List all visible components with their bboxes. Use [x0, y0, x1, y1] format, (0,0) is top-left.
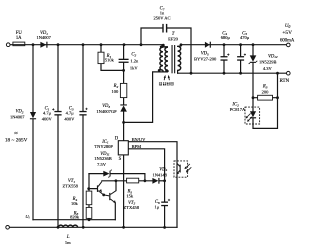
svg-text:C2: C2 [131, 53, 136, 58]
terminal input N [6, 226, 10, 230]
svg-text:200: 200 [262, 89, 270, 94]
resistor R3 200 [258, 85, 273, 101]
capacitor C4 680u [221, 31, 231, 60]
node clamp and drain junctions [122, 69, 125, 124]
AC input label 18~265V [5, 131, 28, 144]
svg-text:BPM: BPM [132, 144, 142, 149]
diode VD3 1N4007GP [96, 104, 127, 114]
fuse FU 1A [13, 31, 25, 46]
capacitor C5 470u [237, 31, 250, 60]
diode VD2 1N4007 [10, 110, 36, 120]
svg-text:4.7μ: 4.7μ [66, 111, 75, 116]
resistor R4 10k [71, 191, 92, 206]
node R3 LED junctions [252, 96, 279, 99]
wire VD4 to BPM node [160, 180, 165, 182]
terminal input L [6, 43, 10, 47]
svg-text:EF20: EF20 [168, 37, 179, 42]
svg-text:18 ~ 265V: 18 ~ 265V [5, 138, 28, 144]
zener VD12 1N5229B 4.3V [249, 54, 278, 71]
wire C5 branch [240, 45, 242, 73]
resistor R1 510k [98, 52, 115, 63]
wire VD3 to drain node [123, 112, 125, 141]
node secondary rail junctions [180, 43, 255, 46]
svg-text:250V AC: 250V AC [153, 16, 170, 21]
diode VD4 1N4148 [152, 167, 167, 183]
wire VD2 to sense rail [32, 119, 34, 219]
wire top rail primary [10, 44, 164, 46]
terminal RTN [287, 71, 291, 75]
terminal output +5V [287, 43, 291, 47]
transformer core [168, 32, 179, 73]
wire R1 branch [101, 45, 124, 71]
svg-text:1kV: 1kV [130, 66, 139, 71]
wire VD11 net [89, 174, 145, 181]
capacitor C3 4.7u 400V [64, 107, 87, 122]
node bottom rail junctions [57, 226, 166, 229]
capacitor C6 1u [154, 199, 170, 210]
shield winding label with arrows [159, 75, 174, 86]
capacitor C2 1.2n 1kV [119, 53, 139, 71]
svg-text:680μ: 680μ [221, 35, 231, 40]
svg-text:≈: ≈ [14, 131, 18, 137]
svg-text:+5V: +5V [282, 30, 292, 36]
svg-text:1N4007: 1N4007 [10, 114, 25, 119]
svg-text:820k: 820k [70, 214, 80, 219]
svg-text:1N5236B: 1N5236B [94, 156, 112, 161]
output label U0 +5V 600mA [280, 24, 295, 43]
transistor VT1 ZTX558 [62, 179, 103, 195]
capacitor C7 1n 250VAC [153, 7, 170, 33]
wire VT1 collector net [102, 180, 152, 182]
svg-text:1μ: 1μ [154, 205, 159, 210]
optocoupler IC2 PC817A LED side [230, 102, 260, 124]
svg-text:BYV27-200: BYV27-200 [194, 57, 217, 62]
node feedback network junctions [87, 179, 166, 221]
transformer T EF20 [160, 45, 181, 72]
svg-text:1N4007: 1N4007 [36, 35, 51, 40]
wire bottom rail [10, 226, 177, 228]
resistor R2 100 [112, 83, 127, 97]
wire EN/UV to opto [128, 142, 177, 228]
wire LED branch [253, 73, 278, 128]
svg-text:EN/UV: EN/UV [132, 137, 146, 142]
svg-text:U0: U0 [285, 24, 291, 29]
wire C7 left leg [141, 28, 162, 45]
wire C2 clamp branch [123, 45, 125, 84]
capacitor C1 4.7u 400V [42, 107, 62, 122]
inductor L 1m [58, 225, 77, 245]
svg-text:VD12: VD12 [268, 54, 278, 59]
op-amp U1 : IC1 TNY280P switcher box [94, 136, 146, 162]
transistor VT2 ZTX458 symbol [104, 191, 116, 204]
svg-text:600mA: 600mA [280, 39, 295, 44]
resistor R6 820k [70, 207, 92, 219]
svg-text:TNY280P: TNY280P [94, 144, 113, 149]
wire C3 branch [82, 45, 84, 228]
svg-text:1m: 1m [65, 240, 71, 245]
wire C1 branch [57, 45, 59, 228]
wire base divider [89, 174, 97, 220]
svg-text:400V: 400V [42, 116, 53, 121]
svg-text:1.2n: 1.2n [130, 59, 139, 64]
wire secondary bottom lead [177, 70, 179, 73]
svg-text:100: 100 [112, 89, 120, 94]
node transformer winding taps [158, 69, 168, 72]
wire top rail secondary [181, 44, 286, 46]
svg-text:ZTX558: ZTX558 [62, 183, 78, 188]
svg-text:1N4007GP: 1N4007GP [96, 109, 117, 114]
wire C6 branch [164, 181, 166, 228]
node RTN rail junctions [190, 72, 279, 75]
wire C4 branch [223, 45, 225, 73]
wire VD2 branch [32, 45, 34, 112]
svg-text:1A: 1A [16, 36, 22, 41]
svg-text:Ui: Ui [25, 214, 29, 220]
wire VT2 collector up [115, 181, 117, 191]
svg-text:4.3V: 4.3V [263, 66, 273, 71]
wire R2 to VD3 [123, 98, 125, 105]
svg-text:10k: 10k [71, 201, 79, 206]
svg-text:400V: 400V [64, 116, 75, 121]
transistor VT2 ZTX458 labels [124, 201, 140, 210]
svg-text:15k: 15k [126, 194, 134, 199]
svg-text:RTN: RTN [279, 79, 289, 84]
svg-text:470μ: 470μ [240, 35, 250, 40]
svg-text:510k: 510k [105, 57, 115, 62]
svg-text:ZTX458: ZTX458 [124, 205, 140, 210]
zener VD11 1N5236B 7.5V symbol [103, 170, 111, 178]
svg-text:4.7μ: 4.7μ [43, 111, 52, 116]
wire BPM down [128, 149, 164, 181]
svg-text:1N4148: 1N4148 [152, 172, 167, 177]
diode VD1 1N4007 [36, 31, 51, 48]
wire S pin down [123, 155, 125, 227]
wire zener VD12 branch [252, 45, 254, 98]
svg-text:PC817A: PC817A [230, 107, 246, 112]
wire line-sense rail [33, 219, 115, 221]
svg-text:7.5V: 7.5V [97, 162, 107, 167]
zener VD11 1N5236B labels [94, 152, 112, 167]
wire C7 right leg [167, 28, 191, 73]
node top rail junctions [32, 43, 165, 46]
wire R3 leads [253, 97, 278, 99]
resistor R5 15k [126, 178, 138, 199]
optocoupler phototransistor side [174, 161, 191, 177]
diode VD5 BYV27-200 [194, 42, 217, 62]
wire VT2 emitter to sense rail [114, 203, 116, 220]
svg-text:1N5229B: 1N5229B [259, 60, 277, 65]
wire secondary top lead [178, 45, 181, 47]
wire drain node to primary bottom [124, 72, 168, 123]
wire RTN rail [178, 72, 287, 74]
svg-text:S: S [119, 157, 122, 162]
